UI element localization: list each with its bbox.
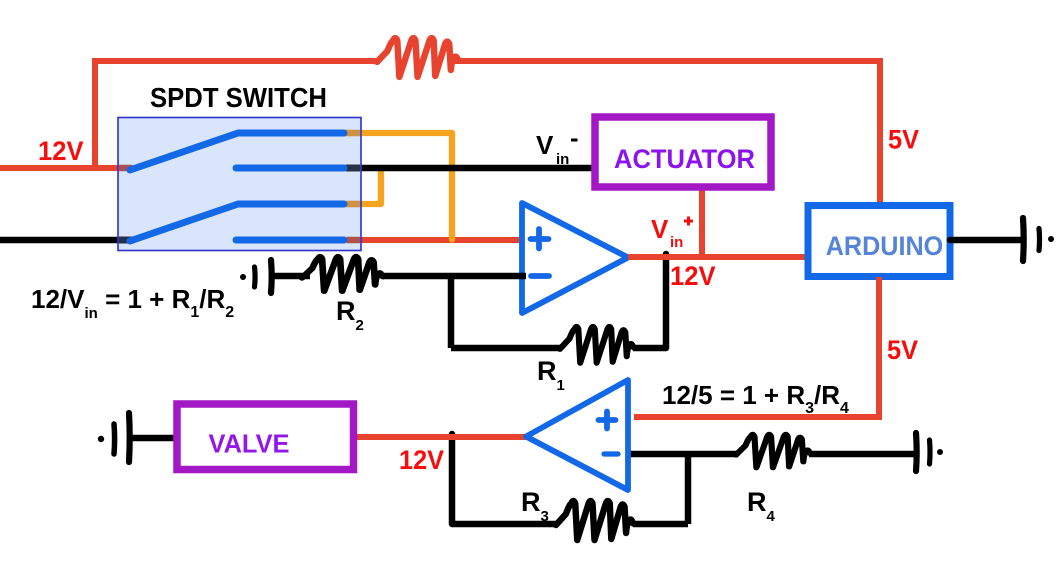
op-amp U2 - pin <box>604 451 618 456</box>
op-amp U2 + pin <box>599 412 619 455</box>
wire 12V riser to top loop <box>95 61 380 168</box>
wire orange jumper throw2A to Vin- net <box>338 166 381 204</box>
op-amp U1 <box>522 203 628 313</box>
wire R4 to ground <box>809 451 917 458</box>
box VALVE <box>177 404 354 470</box>
ground G4 (left of VALVE) <box>98 413 130 462</box>
ground G2 (right of R4) <box>916 433 943 471</box>
wire U1 output to ARDUINO (12V net) <box>628 254 808 260</box>
wire orange tip over 12V net junction <box>449 234 455 240</box>
wire switch pole2 common to op-amp U1 + input (red) <box>340 237 522 243</box>
switch S1 pole1 lever and throw A <box>130 133 344 170</box>
wire stub black under switch fill (left) <box>119 237 132 244</box>
wire stub 12V under switch fill (left) <box>119 165 132 172</box>
switch S1 pole2 throw B contact <box>236 237 344 244</box>
wire stub orange under switch fill (top right) <box>340 130 360 137</box>
svg-text:V: V <box>536 130 554 160</box>
wire ground to VALVE <box>130 435 178 442</box>
op-amp U2 (points left) <box>526 380 628 490</box>
wire ACTUATOR to 12V net <box>699 190 705 257</box>
svg-text:12V: 12V <box>399 445 444 475</box>
svg-text:in: in <box>670 234 683 251</box>
svg-text:SPDT SWITCH: SPDT SWITCH <box>150 82 327 113</box>
wire ground to R2 <box>272 273 310 280</box>
switch S1 pole1 throw B contact <box>236 165 344 172</box>
svg-text:ACTUATOR: ACTUATOR <box>614 144 755 174</box>
ground G3 (left of R2) <box>240 260 272 293</box>
wire top loop right to ARDUINO 5V <box>453 61 880 203</box>
wire orange jumper throw1A to +12V net <box>338 133 452 239</box>
svg-text:5V: 5V <box>887 335 918 365</box>
wire feedback riser to U1 output <box>663 254 670 348</box>
wire U2 output to VALVE (12V net, red) <box>355 434 527 440</box>
svg-text:in: in <box>556 151 569 168</box>
resistor R2 <box>302 257 383 291</box>
superscript plus of Vin+ <box>684 217 693 226</box>
svg-text:12V: 12V <box>38 136 84 166</box>
wire R3 bottom left <box>452 521 558 528</box>
wire R2 to U1 inverting input <box>383 273 526 280</box>
wire to R1 <box>451 345 562 352</box>
resistor R4 <box>736 434 810 467</box>
wire 12V input (left, red) <box>0 165 134 171</box>
ground G1 (right of ARDUINO) <box>1023 218 1054 261</box>
svg-text:12V: 12V <box>670 261 716 291</box>
svg-text:V: V <box>651 214 669 244</box>
wire ARDUINO to ground <box>950 237 1022 244</box>
wire junction riser to U2 - input <box>685 454 692 524</box>
svg-text:ARDUINO: ARDUINO <box>826 231 944 261</box>
node Vin+ label (red) <box>651 214 683 251</box>
wire R1 to output node <box>633 345 666 352</box>
wire feedback riser R3 node to U2 output (black under red) <box>449 434 456 524</box>
wire stub orange under switch fill (mid right) <box>346 201 360 208</box>
wire stub black under switch fill (right) <box>346 165 360 172</box>
wire feedback node down (left) <box>448 276 455 348</box>
op-amp U1 + pin <box>531 229 550 276</box>
resistor R3 <box>556 501 633 540</box>
wire black input (left, to switch pole 2) <box>0 237 134 244</box>
wire stub red under switch fill (bottom right) <box>347 237 360 244</box>
superscript minus of Vin- <box>571 139 578 142</box>
wire switch pole1 throw to ACTUATOR (black, Vin- net) <box>340 165 594 172</box>
wire U2 - input to R4 <box>629 451 738 458</box>
svg-text:VALVE: VALVE <box>209 429 290 459</box>
switch S1 body (translucent box) <box>118 118 361 251</box>
resistor (top, red, unlabeled) <box>377 38 459 77</box>
node Vin- label <box>536 130 569 168</box>
wire R3 to junction <box>633 521 688 528</box>
box ARDUINO <box>808 206 950 277</box>
box ACTUATOR <box>595 117 771 187</box>
wire 5V ARDUINO to U2 + input <box>634 277 879 417</box>
resistor R1 <box>560 327 634 363</box>
svg-text:5V: 5V <box>888 125 919 155</box>
op-amp U1 - pin <box>531 273 549 279</box>
switch S1 pole2 lever and throw A <box>130 204 344 241</box>
